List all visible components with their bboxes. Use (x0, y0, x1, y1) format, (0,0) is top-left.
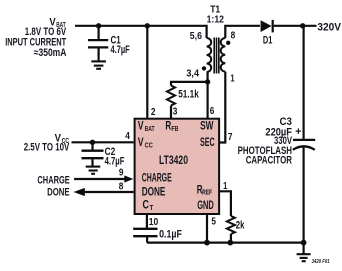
svg-text:SW: SW (200, 121, 213, 133)
svg-text:51.1k: 51.1k (178, 89, 199, 101)
svg-text:LT3420: LT3420 (159, 155, 188, 167)
svg-text:SEC: SEC (200, 137, 215, 149)
svg-text:FB: FB (171, 124, 178, 133)
svg-text:2k: 2k (236, 219, 245, 231)
svg-text:DONE: DONE (142, 186, 166, 198)
svg-text:≈350mA: ≈350mA (34, 47, 67, 59)
svg-text:CAPACITOR: CAPACITOR (246, 155, 292, 167)
svg-text:8: 8 (119, 182, 124, 193)
svg-text:C: C (143, 200, 149, 212)
svg-text:T: T (150, 203, 154, 212)
svg-text:5: 5 (211, 217, 216, 228)
svg-text:9: 9 (119, 168, 124, 179)
svg-text:GND: GND (197, 200, 214, 212)
svg-text:CC: CC (145, 141, 154, 150)
svg-text:+: + (295, 126, 301, 138)
svg-text:0.1µF: 0.1µF (159, 228, 182, 240)
svg-text:3,4: 3,4 (186, 68, 199, 79)
svg-text:V: V (138, 121, 144, 133)
svg-text:1: 1 (230, 74, 234, 85)
svg-text:1:12: 1:12 (207, 15, 225, 26)
svg-text:REF: REF (202, 188, 212, 197)
svg-text:2.5V TO 10V: 2.5V TO 10V (24, 142, 70, 154)
svg-text:4: 4 (125, 131, 130, 142)
svg-text:7: 7 (228, 132, 233, 143)
svg-text:CHARGE: CHARGE (142, 173, 172, 185)
svg-text:1: 1 (223, 181, 227, 192)
svg-text:2: 2 (151, 107, 156, 118)
svg-text:10: 10 (149, 217, 159, 228)
svg-text:320V: 320V (317, 21, 341, 33)
svg-text:8: 8 (231, 31, 236, 42)
svg-text:5,6: 5,6 (190, 31, 202, 42)
svg-text:DONE: DONE (47, 186, 70, 198)
svg-text:D1: D1 (263, 34, 273, 46)
svg-text:V: V (138, 137, 144, 149)
svg-text:4.7µF: 4.7µF (105, 156, 125, 168)
svg-text:4.7µF: 4.7µF (111, 44, 130, 56)
svg-text:T1: T1 (210, 4, 220, 15)
svg-text:6: 6 (210, 106, 215, 117)
svg-text:3420 F01: 3420 F01 (312, 259, 330, 265)
svg-text:BAT: BAT (145, 124, 155, 133)
svg-text:3: 3 (173, 106, 178, 117)
svg-text:CHARGE: CHARGE (37, 175, 69, 187)
